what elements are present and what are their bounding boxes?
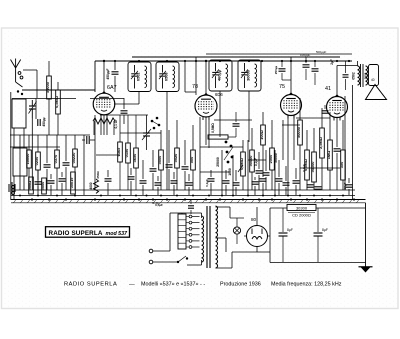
wire pot wiper xyxy=(238,165,243,172)
antenna xyxy=(11,59,21,83)
wire can1 out xyxy=(138,92,140,105)
wire R5 bottom xyxy=(56,168,58,190)
wire R20 bottom xyxy=(313,182,315,190)
resistor R22 xyxy=(326,140,332,170)
resistor R4 xyxy=(34,152,40,170)
loudspeaker LS1 cone xyxy=(366,85,387,100)
capacitor C11 xyxy=(182,167,189,169)
capacitor C5 2uF xyxy=(87,136,89,144)
resistor R25 xyxy=(40,178,46,194)
wire rect right xyxy=(267,235,270,237)
resistor R1 50k xyxy=(45,76,51,99)
wire C41 top xyxy=(348,178,350,183)
capacitor C33 xyxy=(186,183,193,185)
svg-text:41: 41 xyxy=(325,86,331,92)
wire mesh h3 xyxy=(120,132,161,134)
svg-text:500Ω: 500Ω xyxy=(27,181,32,191)
wire V1 plate to bus xyxy=(103,62,105,94)
wire C19 down xyxy=(305,69,307,80)
wire R21 top xyxy=(321,108,323,128)
wire mains riser xyxy=(169,213,171,251)
switch lever mains xyxy=(178,256,186,262)
wire C35 top xyxy=(225,170,227,179)
junction bias rail xyxy=(19,195,21,197)
wire antenna to V1 grid xyxy=(22,89,95,91)
capacitor C29 xyxy=(128,177,135,179)
wire C12 bottom xyxy=(258,175,260,190)
capacitor C21 tone xyxy=(322,111,329,113)
wire R21 bottom xyxy=(321,158,323,190)
switch pivot xyxy=(177,261,179,263)
svg-text:50000: 50000 xyxy=(45,82,50,93)
junction bias rail xyxy=(176,195,178,197)
wire T4 primary bottom xyxy=(201,260,203,265)
phono input jack xyxy=(9,182,15,194)
tube V4 41 output xyxy=(325,86,348,121)
wire R20 top xyxy=(313,128,315,152)
capacitor C4 xyxy=(63,163,70,165)
mains terminal M1 xyxy=(149,249,153,253)
svg-text:350Ω: 350Ω xyxy=(96,171,100,179)
wire C31 top xyxy=(157,176,159,181)
wire C19 top xyxy=(305,57,307,63)
svg-text:80: 80 xyxy=(251,217,257,222)
wire B- link xyxy=(269,252,271,263)
svg-text:4000: 4000 xyxy=(89,182,93,189)
capacitor C40 xyxy=(293,181,300,183)
junction top bus xyxy=(138,60,140,62)
wire mesh h5 xyxy=(200,146,243,148)
power transformer T4 core xyxy=(206,206,208,268)
junction bias rail xyxy=(37,195,39,197)
wire CT drop xyxy=(225,238,227,252)
wire C25 top xyxy=(37,170,39,180)
wire mesh h6 xyxy=(296,117,330,119)
wire mesh v1 xyxy=(221,150,223,195)
wire grid mesh xyxy=(90,98,124,100)
wire R2 down xyxy=(57,114,59,135)
oscillator coil L2 xyxy=(13,148,27,176)
capacitor C38 xyxy=(276,179,283,181)
wire mesh h11 xyxy=(10,146,60,148)
junction chassis xyxy=(123,198,125,200)
junction chassis xyxy=(306,198,308,200)
switch contact s5 xyxy=(153,127,156,130)
wire C11 bottom xyxy=(184,171,186,190)
junction chassis xyxy=(138,198,140,200)
wire C15 join xyxy=(282,79,291,81)
wire R6 top xyxy=(74,135,76,149)
svg-text:25000: 25000 xyxy=(216,157,220,167)
wire C36 bottom xyxy=(235,187,237,195)
junction chassis xyxy=(290,198,292,200)
wire C7 top xyxy=(114,61,116,70)
junction chassis xyxy=(205,198,207,200)
svg-text:mod 537: mod 537 xyxy=(106,231,129,237)
phono terminal P2 xyxy=(12,192,15,195)
wire R16 bottom xyxy=(271,170,273,190)
wire mesh v6 xyxy=(19,135,21,190)
resistor R5 xyxy=(53,150,59,168)
wire C36 top xyxy=(235,170,237,181)
svg-text:0,5MΩ: 0,5MΩ xyxy=(54,96,59,108)
wire C14 top xyxy=(235,112,237,122)
wire C26 top xyxy=(50,174,52,179)
resistor R6 xyxy=(71,149,77,167)
junction bias rail xyxy=(342,195,344,197)
junction bias rail xyxy=(146,195,148,197)
svg-text:0508: 0508 xyxy=(164,72,169,81)
svg-text:0,1µF: 0,1µF xyxy=(205,179,209,187)
switch contact xyxy=(226,151,229,154)
capacitor C25 xyxy=(35,182,42,184)
wire C34 bottom xyxy=(210,183,212,195)
wire V3 top xyxy=(290,57,292,94)
wire C37 top xyxy=(254,177,256,180)
svg-text:3650: 3650 xyxy=(132,154,137,163)
svg-text:0,5MΩ: 0,5MΩ xyxy=(239,158,244,170)
capacitor C10 xyxy=(166,165,173,167)
wire C29 bottom xyxy=(130,181,132,195)
wire R22 bottom xyxy=(329,170,331,190)
wire C5 right xyxy=(90,139,95,141)
svg-text:2500: 2500 xyxy=(268,155,273,164)
wire C7 bottom xyxy=(114,76,116,92)
resistor R26 xyxy=(69,172,75,194)
wire R4 bottom xyxy=(37,170,39,190)
wire C22 bottom xyxy=(190,210,192,214)
switch contact s4 xyxy=(156,117,159,120)
wire C30 top xyxy=(142,160,144,179)
wire can1 to V1 xyxy=(114,103,139,105)
wire R16 top xyxy=(271,120,273,148)
wire B+ riser xyxy=(269,208,271,252)
junction bias rail xyxy=(247,195,249,197)
wire R17 top xyxy=(262,112,264,125)
svg-text:2µF: 2µF xyxy=(330,59,334,65)
wire C4 bottom xyxy=(65,167,67,190)
junction top bus xyxy=(348,60,350,62)
wire C21 top xyxy=(324,105,326,109)
wire C27 bottom xyxy=(61,183,63,195)
svg-text:RADIO SUPERLA: RADIO SUPERLA xyxy=(64,282,117,288)
wire R1 top xyxy=(48,61,50,76)
wire HT top xyxy=(216,206,231,208)
junction chassis xyxy=(258,198,260,200)
wire C3 bottom xyxy=(46,169,48,190)
wire R8 bottom xyxy=(127,163,129,190)
wire top bus B+ xyxy=(95,60,352,62)
wire C43 bottom xyxy=(345,79,347,90)
wire R12 bottom xyxy=(192,170,194,190)
wire R11 top xyxy=(176,120,178,148)
filter capacitor C24 8uF xyxy=(314,208,328,262)
mains terminal M2 xyxy=(149,260,153,264)
resistor R12 xyxy=(189,150,195,170)
wire C18 top xyxy=(336,118,338,147)
wire C18 bottom xyxy=(336,153,338,190)
junction bias rail xyxy=(192,195,194,197)
wire C8 top xyxy=(146,115,148,133)
switch contact s6 xyxy=(158,124,161,127)
wire V1 pin down xyxy=(100,117,102,135)
svg-text:0370: 0370 xyxy=(53,155,58,164)
svg-text:3508: 3508 xyxy=(364,72,368,79)
capacitor C30 xyxy=(140,181,147,183)
wire R9 bottom xyxy=(135,168,137,190)
wire HT bottom xyxy=(216,267,233,269)
wire mesh v2 xyxy=(232,155,234,195)
svg-text:RADIO SUPERLA: RADIO SUPERLA xyxy=(49,230,103,237)
voltage selector tap stubs xyxy=(192,217,200,248)
junction bias rail xyxy=(274,195,276,197)
wire C15 bottom xyxy=(281,73,283,80)
junction top bus xyxy=(305,60,307,62)
capacitor C17 xyxy=(315,187,322,189)
svg-text:78: 78 xyxy=(192,84,198,90)
wire C37 bottom xyxy=(254,186,256,195)
oscillator coupling coil L3 xyxy=(93,118,115,124)
switch contact xyxy=(227,161,230,164)
wire C10 bottom xyxy=(168,169,170,190)
wire R18 top xyxy=(299,98,301,120)
wire V1 cathode drop xyxy=(94,115,96,190)
wire C5 left xyxy=(82,139,85,141)
junction chassis xyxy=(336,198,338,200)
wire C35 bottom xyxy=(225,185,227,195)
resistor R2 grid leak xyxy=(54,90,60,114)
wire mesh h12 xyxy=(300,167,340,169)
svg-text:50000: 50000 xyxy=(296,127,301,138)
wire mesh h10 xyxy=(282,124,300,126)
resistor R10 xyxy=(157,150,163,170)
output transformer T3 secondary xyxy=(366,66,368,85)
wire input horizontal xyxy=(12,98,76,100)
wire R1 down xyxy=(48,99,50,135)
tube V1 6A7 converter xyxy=(93,85,116,118)
junction top bus xyxy=(219,60,221,62)
svg-text:460µµ: 460µµ xyxy=(217,69,222,81)
junction chassis xyxy=(166,198,168,200)
wire R19 bottom xyxy=(306,180,308,190)
resistor R17 xyxy=(259,125,265,145)
wire R12 top xyxy=(192,125,194,150)
resistor R21 xyxy=(318,128,324,158)
wire B+ out xyxy=(257,251,270,253)
wire C42 bottom xyxy=(262,183,264,195)
wire C9 bottom xyxy=(152,173,154,190)
svg-text:0502: 0502 xyxy=(136,72,141,81)
wire left border vertical xyxy=(10,92,12,200)
svg-text:0150: 0150 xyxy=(124,149,129,158)
wire V3 pin2 down xyxy=(293,116,295,160)
junction chassis xyxy=(65,198,67,200)
tube V5 80 rectifier xyxy=(247,226,268,247)
wire C11 top xyxy=(184,140,186,165)
junction bias rail xyxy=(313,195,315,197)
wire C33 top xyxy=(188,174,190,181)
wire CT tap xyxy=(216,237,227,239)
svg-text:50000: 50000 xyxy=(310,162,315,173)
wire mains 1 xyxy=(153,250,170,252)
switch contact xyxy=(231,156,234,159)
wire L1-L2 left xyxy=(13,128,15,148)
switch contact xyxy=(225,141,228,144)
wire mesh h9 xyxy=(200,171,230,173)
capacitor C26 xyxy=(48,181,55,183)
variable capacitor C8 trimmer xyxy=(142,129,151,140)
wire to C2 xyxy=(35,99,37,120)
junction bias rail xyxy=(208,195,210,197)
junction top bus xyxy=(166,60,168,62)
antenna tap terminal a2 xyxy=(20,76,23,79)
IF transformer T2 can B xyxy=(238,60,261,91)
capacitor C36 xyxy=(233,183,240,185)
capacitor C19 100pF xyxy=(303,65,310,67)
wire C40 top xyxy=(295,168,297,179)
svg-text:Modelli «537» e «1537» - -: Modelli «537» e «1537» - - xyxy=(141,282,205,288)
resistor R23 bias xyxy=(339,150,345,180)
wire C1 down xyxy=(31,118,33,190)
wire heater link xyxy=(232,251,257,253)
wire lamp feed xyxy=(230,217,244,219)
svg-text:Produzione 1936: Produzione 1936 xyxy=(220,282,261,288)
wire L3 right down xyxy=(113,121,115,135)
wire mesh h4 xyxy=(214,119,252,121)
wire HT bottom rise xyxy=(231,252,233,268)
capacitor C41 xyxy=(346,185,353,187)
svg-text:1MΩ: 1MΩ xyxy=(326,151,331,160)
resistor R19 xyxy=(303,150,309,180)
wire C38 bottom xyxy=(278,183,280,195)
junction chassis xyxy=(353,198,355,200)
wire R4 top xyxy=(37,135,39,152)
wire R7 top xyxy=(119,115,121,142)
svg-text:100Ω: 100Ω xyxy=(259,130,264,140)
svg-text:500: 500 xyxy=(189,157,194,164)
resistor R24 xyxy=(27,177,33,194)
wire C40 bottom xyxy=(295,185,297,195)
wire V2 pin down xyxy=(208,120,210,148)
wire C38 top xyxy=(278,160,280,177)
capacitor C13 xyxy=(263,173,270,175)
wire T4 primary top link xyxy=(182,212,202,214)
wire V4 side down xyxy=(344,96,346,190)
capacitor C28 xyxy=(105,179,112,181)
tube V3 75 detector xyxy=(279,84,302,119)
wire can2 down xyxy=(166,92,168,191)
wire C33 bottom xyxy=(188,187,190,195)
wire rect left xyxy=(244,235,247,237)
volume potentiometer R14 xyxy=(239,152,245,176)
svg-text:250µµ: 250µµ xyxy=(274,66,278,75)
wire C39 top xyxy=(285,166,287,181)
junction top bus xyxy=(184,60,186,62)
wire C28 top xyxy=(107,170,109,177)
capacitor C12 xyxy=(256,171,263,173)
switch contact s1 xyxy=(17,90,19,92)
wire V3 pin down xyxy=(287,116,289,195)
wire C28 bottom xyxy=(107,183,109,195)
svg-text:40: 40 xyxy=(371,78,375,82)
wire V2 top feed xyxy=(195,57,197,95)
junction top bus xyxy=(314,60,316,62)
wire can3 out down xyxy=(219,91,221,137)
wire R15 bottom xyxy=(251,172,253,190)
svg-text:Media frequenza: 128,25 kHz: Media frequenza: 128,25 kHz xyxy=(271,282,342,288)
wire mesh top xyxy=(185,91,196,93)
wire bias rail xyxy=(11,195,355,197)
wire AVC rail xyxy=(11,189,355,191)
svg-text:30000: 30000 xyxy=(246,70,251,81)
wire V1 bottom down xyxy=(103,115,105,136)
wire mesh v4 xyxy=(274,150,276,195)
IF transformer T2 can A xyxy=(209,60,232,91)
wire C13 bottom xyxy=(265,177,267,190)
wire C34 top xyxy=(210,170,212,177)
svg-text:30300: 30300 xyxy=(296,205,308,210)
wire R5 top xyxy=(56,135,58,150)
wire R13 out xyxy=(228,136,236,138)
wire L2 right to rail xyxy=(23,176,25,190)
wire L2 to chassis xyxy=(13,176,15,200)
junction bias rail xyxy=(74,195,76,197)
filter capacitor C23 8uF xyxy=(279,208,293,262)
svg-text:5020: 5020 xyxy=(173,154,178,163)
switch contact xyxy=(230,145,233,148)
junction chassis xyxy=(152,198,154,200)
power transformer T4 primary xyxy=(202,216,204,262)
junction top bus xyxy=(195,60,197,62)
capacitor C7 padder xyxy=(112,72,119,74)
wire pot bottom xyxy=(242,176,244,190)
junction chassis xyxy=(219,198,221,200)
wire C13 top xyxy=(265,150,267,171)
junction bias rail xyxy=(262,195,264,197)
chassis ground bus xyxy=(11,200,366,203)
wire L1-L2 right xyxy=(23,128,25,148)
wire lamp bottom xyxy=(236,234,238,244)
junction top bus xyxy=(248,60,250,62)
wire C42 top xyxy=(262,145,264,177)
svg-text:8µF: 8µF xyxy=(287,228,293,232)
wire C39 bottom xyxy=(285,187,287,195)
wire R3 top xyxy=(28,135,30,150)
speaker frame xyxy=(369,65,379,86)
svg-text:450µµF: 450µµF xyxy=(106,68,110,79)
junction bias rail xyxy=(299,195,301,197)
wire R22 top xyxy=(329,112,331,140)
svg-text:8µF: 8µF xyxy=(322,228,328,232)
wire C20 down xyxy=(314,73,316,85)
wire R15 top xyxy=(251,128,253,150)
wire lamp top xyxy=(236,218,238,227)
wire C25 bottom xyxy=(37,186,39,195)
wire R9 top xyxy=(135,115,137,148)
wire R10 top xyxy=(160,130,162,150)
junction top bus xyxy=(281,60,283,62)
junction bias rail xyxy=(135,195,137,197)
wire R11 bottom xyxy=(176,168,178,190)
svg-text:6D6: 6D6 xyxy=(215,92,223,97)
output transformer T3 core xyxy=(360,64,362,87)
resistor R3 10k xyxy=(25,150,31,168)
wire rect plate top xyxy=(256,207,258,226)
switch lever w2 xyxy=(224,147,233,160)
junction chassis xyxy=(31,198,33,200)
wire selector top drop xyxy=(181,213,183,214)
capacitor C34 xyxy=(208,179,215,181)
